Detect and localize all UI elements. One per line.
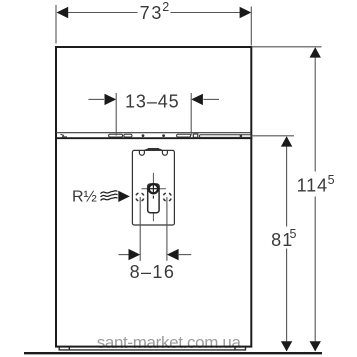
seam dot 1 <box>142 134 145 137</box>
svg-text:8–16: 8–16 <box>130 262 176 282</box>
81 up arrow <box>281 136 292 146</box>
dim 8-16 ext right <box>166 197 168 261</box>
114 up arrow <box>310 47 321 57</box>
screw circle <box>149 184 158 193</box>
seam latch <box>193 134 198 137</box>
dim 73 left arrow <box>57 7 69 18</box>
13-45 right arrow <box>191 94 203 105</box>
13-45 right ext <box>190 93 192 136</box>
dim 8-16 ext left <box>139 197 141 261</box>
81 down arrow <box>281 341 292 351</box>
plate notch left <box>139 151 144 156</box>
dim 81 line bottom <box>286 249 288 352</box>
seam dot 2 <box>162 134 165 137</box>
plate top tab outer <box>145 148 162 151</box>
dim 114 line top <box>314 48 316 172</box>
svg-text:114: 114 <box>297 176 328 196</box>
pipe tick <box>152 196 154 199</box>
13-45 left arrow <box>105 94 117 105</box>
dashed circle right <box>163 193 171 201</box>
svg-text:5: 5 <box>328 173 335 187</box>
dim 81 line top <box>286 137 288 227</box>
horizontal centerline <box>142 188 166 190</box>
dim 114 line bottom <box>314 197 316 352</box>
13-45 right tail <box>203 98 219 100</box>
seam slot 1 <box>109 134 123 137</box>
8-16 left tail <box>119 254 130 256</box>
13-45 left ext <box>115 93 117 136</box>
cabinet outline <box>56 47 251 347</box>
seam hinge mark <box>61 134 68 137</box>
vertical centerline <box>152 173 154 221</box>
ground <box>24 352 322 354</box>
8-16 right tail <box>178 254 192 256</box>
ext line 114 top <box>252 46 322 48</box>
screw cross <box>149 188 158 190</box>
seam slot 2 <box>124 134 132 137</box>
svg-text:73: 73 <box>140 3 164 23</box>
svg-text:5: 5 <box>290 227 297 241</box>
bracket plate <box>132 150 174 225</box>
svg-text:R½: R½ <box>72 189 97 206</box>
R 1/2 arrow <box>118 191 130 202</box>
svg-text:sant-market.com.ua: sant-market.com.ua <box>97 333 242 352</box>
8-16 left arrow <box>129 249 141 260</box>
seam slot 3 <box>177 134 191 137</box>
plate top tab inner <box>147 148 159 151</box>
seam top line <box>56 132 251 134</box>
seam long slot <box>200 135 252 138</box>
ext line 81 <box>252 135 295 137</box>
8-16 right arrow <box>167 249 179 260</box>
114 down arrow <box>310 341 321 351</box>
ext line right <box>250 7 252 46</box>
dim 73 right arrow <box>240 7 252 18</box>
dim 73(2) line <box>58 12 138 14</box>
seam bottom line <box>55 137 252 139</box>
seam dot 3 <box>240 135 243 138</box>
dim 13-45 <box>88 98 104 100</box>
svg-text:13–45: 13–45 <box>125 92 180 112</box>
plinth feet <box>59 347 245 350</box>
wavy flow symbol <box>101 191 118 201</box>
svg-text:2: 2 <box>162 0 169 14</box>
ext line left <box>55 5 57 44</box>
plate notch right <box>162 151 167 156</box>
water pipe <box>148 184 159 213</box>
dashed circle left <box>136 193 144 201</box>
